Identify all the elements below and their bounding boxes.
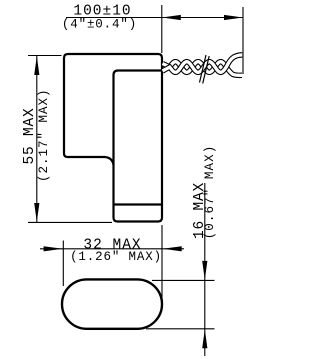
svg-text:(1.26" MAX): (1.26" MAX) xyxy=(70,250,162,264)
dimension 16 MAX arrowhead top xyxy=(202,261,207,280)
cable wire 1 (white core) xyxy=(163,55,243,72)
cable wire 2 (white core) xyxy=(163,62,243,76)
dimension 16 MAX dimension line xyxy=(204,183,206,356)
cable break mark line 1 xyxy=(200,55,207,83)
dimension 55 MAX extension line bottom xyxy=(28,221,112,223)
dimension 55 MAX extension line top xyxy=(28,55,62,57)
dimension 100±10 extension line right xyxy=(242,7,244,74)
body inner edge (end cap) xyxy=(114,203,163,205)
sensor body outline (side view) xyxy=(64,54,162,222)
dimension 100±10 dimension line xyxy=(66,17,243,19)
dimension 32 MAX arrowhead left xyxy=(44,246,63,251)
dimension 100±10 extension line left xyxy=(161,5,163,53)
dimension 32 MAX extension line left xyxy=(62,241,64,287)
oval bottom view of sensor body xyxy=(62,279,162,328)
dimension 32 MAX extension line right xyxy=(161,225,163,310)
dimension 32 MAX dimension line xyxy=(40,248,184,250)
dimension 55 MAX dimension line xyxy=(36,56,38,222)
dimension 100±10 arrowhead right xyxy=(224,15,243,20)
cable break mark line 2 xyxy=(203,56,210,84)
cable wire 1 (black outline) xyxy=(163,55,243,72)
svg-text:(4"±0.4"): (4"±0.4") xyxy=(62,17,137,31)
cable wire 2 (black outline) xyxy=(163,62,243,76)
dimension 55 MAX arrowhead bottom xyxy=(34,203,39,222)
svg-text:(2.17" MAX): (2.17" MAX) xyxy=(37,88,51,182)
dimension 16 MAX extension line top xyxy=(152,279,215,281)
dimension 100±10 arrowhead left xyxy=(162,15,181,20)
dimension 32 MAX arrowhead right xyxy=(163,246,182,251)
svg-text:55 MAX: 55 MAX xyxy=(22,107,38,164)
svg-text:(0.67" MAX): (0.67" MAX) xyxy=(203,145,217,240)
dimension 16 MAX arrowhead bottom xyxy=(202,329,207,348)
dimension 55 MAX arrowhead top xyxy=(34,56,39,75)
body inner edge (switch housing top-left) xyxy=(114,71,163,166)
dimension 16 MAX extension line bottom xyxy=(146,328,215,330)
